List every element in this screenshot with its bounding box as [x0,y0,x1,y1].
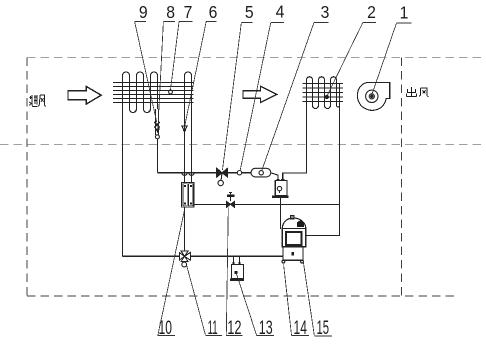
svg-text:7: 7 [184,2,193,22]
fan (centrifugal blower) [357,82,389,110]
svg-text:9: 9 [139,2,148,22]
svg-text:10: 10 [159,317,172,339]
Chinese 出风 (outlet air) drawn strokes [407,87,429,97]
valve 5 [217,168,228,177]
sensor symbol (label 6 target) [182,126,187,131]
inlet air arrow [68,86,101,104]
svg-text:14: 14 [294,317,307,339]
svg-text:1: 1 [400,3,409,23]
pipe hops over line [182,173,194,176]
svg-text:11: 11 [208,318,218,340]
receiver base [272,196,289,198]
capsule filter 3 [251,168,271,177]
receiver bottom pipe to compressor [279,198,281,229]
condenser serpentine tube [307,77,340,109]
svg-text:13: 13 [259,317,273,338]
middle air arrow [243,86,277,102]
receiver right stub from condenser [283,106,307,181]
svg-text:8: 8 [166,2,175,22]
capsule to receiver stub [271,173,278,181]
label underlines bottom [158,334,333,337]
svg-text:5: 5 [245,2,254,22]
expansion device symbol (X) [154,122,160,128]
leader lines bottom [158,208,314,336]
filter / heat-exchanger (component 10) [182,183,195,208]
sensing bulb circle [155,135,159,139]
sight glass circle 4 [237,171,241,175]
enclosure dashed border [0,58,482,296]
compressor (components 14/15) [282,216,306,263]
condenser coil fins [303,83,344,101]
label underlines top [135,21,412,23]
Chinese 进风 (inlet air) drawn strokes [29,95,46,107]
leader lines top [135,21,397,170]
evaporator middle pipes + junction [155,109,157,135]
four-way valve (component 11) [179,251,190,262]
evaporator left pipe down [122,109,124,256]
hot-gas line valve to compressor [190,255,282,257]
service valve 12 [227,201,235,207]
filter bottom pipe to 4-way valve [183,207,185,251]
svg-text:12: 12 [227,316,241,338]
evaporator coil fins [113,82,194,102]
pressure switch box (component 13) [231,264,243,278]
receiver body [275,181,287,196]
arrowhead mark [155,128,160,133]
main liquid line [158,172,217,174]
svg-text:4: 4 [276,2,285,22]
suction line y204 [194,203,226,205]
leader targets [169,90,173,94]
svg-text:2: 2 [367,2,376,22]
svg-text:15: 15 [317,318,330,339]
svg-text:3: 3 [321,2,330,22]
number labels bottom [159,316,330,339]
pipes A,B coil to filter [184,109,186,183]
evaporator serpentine tube [123,72,192,113]
number labels top [139,2,408,23]
stubs to pressure box [233,256,235,264]
discharge pipe [306,106,340,236]
evaporator left pipe elbow to 4-way valve [123,255,180,257]
svg-text:6: 6 [209,2,218,22]
